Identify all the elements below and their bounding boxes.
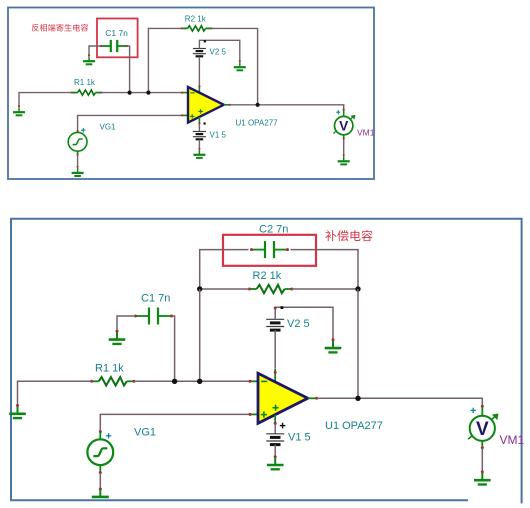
battery V1 (bottom) <box>266 434 284 445</box>
red highlight box around C1 <box>97 19 138 58</box>
VG1 plus marker <box>81 128 86 133</box>
wire op-amp to V1 <box>198 117 200 131</box>
wire feedback right vertical to output <box>357 289 359 398</box>
label: compensation capacitor note (补偿电容) <box>325 230 372 241</box>
wire VM1 to ground <box>343 135 345 156</box>
svg-text:V2 5: V2 5 <box>287 318 310 330</box>
label R1 1k (bottom) <box>95 363 124 375</box>
svg-text:VG1: VG1 <box>134 427 156 439</box>
battery V2 (bottom) <box>266 319 284 330</box>
VG1 plus marker (bottom) <box>106 433 111 438</box>
V1 polarity marker (top) <box>204 122 206 124</box>
label C1 7n (bottom) <box>141 293 170 305</box>
red highlight box around C2 <box>223 235 316 266</box>
wire R2 right leg (bottom) <box>292 288 358 290</box>
battery V1 (top) <box>193 132 206 140</box>
voltmeter VM1 (bottom) <box>468 414 498 441</box>
ground right of V2 (bottom) <box>325 338 342 352</box>
wire op-amp output to VM1 (bottom) <box>308 397 484 416</box>
wire R2 right leg to output <box>212 28 258 104</box>
svg-text:VM1: VM1 <box>357 128 375 138</box>
VM1 plus marker (top) <box>336 110 340 114</box>
ground under V1 (bottom) <box>267 455 284 469</box>
wire op-amp to V1 (bottom) <box>274 415 277 434</box>
wire C1 left to ground (bottom) <box>117 316 136 331</box>
wire feedback left vertical <box>199 289 201 381</box>
resistor R2 (top) <box>181 26 213 31</box>
ground under C1 left (bottom) <box>109 330 126 344</box>
svg-text:V: V <box>339 118 349 133</box>
label R2 1k (bottom) <box>253 270 282 282</box>
label VG1 <box>100 122 117 131</box>
wire V2 to op-amp V+ pin <box>198 57 200 93</box>
op-amp U1 (bottom) <box>258 373 308 423</box>
svg-text:C2 7n: C2 7n <box>259 224 288 236</box>
ground under VM1 (top) <box>338 154 350 164</box>
svg-text:U1 OPA277: U1 OPA277 <box>236 118 279 127</box>
svg-text:V: V <box>476 419 489 440</box>
resistor R1 (top) <box>71 90 103 95</box>
ground at input (top) <box>13 105 25 115</box>
V1 polarity marker (bottom) <box>280 423 286 429</box>
voltage source VG1 (top) <box>68 132 87 151</box>
wire C1 left to ground corner <box>89 46 101 55</box>
label V1 5 <box>210 130 227 139</box>
wire VM1 to ground (bottom) <box>481 441 484 472</box>
wire VG1 to non-inverting input <box>77 114 189 132</box>
junction node: C1/feedback on inverting line <box>128 91 151 95</box>
svg-text:C1 7n: C1 7n <box>105 28 128 38</box>
voltmeter VM1 (top) <box>334 115 356 135</box>
capacitor C1 (bottom) <box>134 308 173 325</box>
resistor R2 (bottom) <box>248 285 293 293</box>
ground right of V2 (top) <box>234 60 246 70</box>
label VM1 (bottom) <box>500 433 525 447</box>
op-amp U1 (top) <box>188 87 224 123</box>
wire C2 left to feedback node <box>200 250 249 289</box>
svg-text:R2 1k: R2 1k <box>185 14 207 23</box>
label U1 OPA277 (top) <box>236 118 279 127</box>
wire V1 to ground (bottom) <box>274 445 276 457</box>
wire C1 right down to inverting node (bottom) <box>172 316 175 381</box>
label R1 1k <box>74 78 96 87</box>
wire V1 to ground <box>198 140 200 149</box>
label VG1 (bottom) <box>134 427 156 439</box>
junction nodes on R2 line <box>197 286 361 291</box>
ground at input (bottom) <box>9 404 26 418</box>
wire V2 to op-amp V+ pin (bottom) <box>274 330 277 382</box>
label C1 7n <box>105 28 128 38</box>
svg-text:R1 1k: R1 1k <box>74 78 96 87</box>
wire VG1 to non-inverting input (bottom) <box>99 413 258 440</box>
capacitor C2 <box>250 241 289 258</box>
wire input ground to R1 (bottom) <box>18 381 92 405</box>
junction nodes on inverting line <box>172 379 202 384</box>
top schematic frame <box>8 8 374 180</box>
label V2 5 (bottom) <box>287 318 310 330</box>
wire V2 top to ground (bottom) <box>274 307 333 340</box>
svg-text:VM1: VM1 <box>500 433 525 447</box>
label: parasitic capacitance note (反相端寄生电容) <box>32 24 89 32</box>
junction node: feedback to output (bottom) <box>355 396 360 401</box>
ground under V1 (top) <box>193 148 205 158</box>
svg-text:V1 5: V1 5 <box>288 432 311 444</box>
wire VG1 to ground <box>77 151 79 167</box>
wire op-amp output to VM1 <box>224 104 345 117</box>
svg-text:U1 OPA277: U1 OPA277 <box>325 420 383 432</box>
VM1 plus marker (bottom) <box>471 408 476 413</box>
label V2 5 <box>210 47 227 56</box>
wire R2 left leg (bottom) <box>200 288 250 290</box>
svg-text:R2 1k: R2 1k <box>253 270 282 282</box>
junction node: feedback to output <box>256 103 260 107</box>
wire C1 right down to inverting node <box>127 46 130 93</box>
V2 polarity marker <box>204 40 206 42</box>
wire R2 left leg <box>148 28 181 92</box>
wire C2 right to output node <box>291 250 359 289</box>
wire R1 to inverting input (bottom) <box>134 380 258 383</box>
capacitor C1 <box>100 40 128 52</box>
resistor R1 (bottom) <box>90 377 135 385</box>
wire R1 to inverting input <box>102 92 189 94</box>
ground under VM1 (bottom) <box>474 470 491 484</box>
battery V2 (top) <box>193 49 206 57</box>
label R2 1k <box>185 14 207 23</box>
svg-text:R1 1k: R1 1k <box>95 363 124 375</box>
svg-text:V1 5: V1 5 <box>210 130 227 139</box>
label V1 5 (bottom) <box>288 432 311 444</box>
wire VG1 to ground (bottom) <box>99 465 102 489</box>
wire input ground to R1 <box>19 93 72 106</box>
label U1 OPA277 (bottom) <box>325 420 383 432</box>
ground under VG1 (top) <box>72 166 84 176</box>
ground under VG1 (bottom) <box>92 488 109 497</box>
svg-text:V2 5: V2 5 <box>210 47 227 56</box>
label C2 7n <box>259 224 288 236</box>
V2 polarity marker (bottom) <box>281 306 284 309</box>
voltage source VG1 (bottom) <box>87 439 113 465</box>
ground under C1 left <box>83 54 95 64</box>
svg-text:VG1: VG1 <box>100 122 117 131</box>
bottom schematic frame <box>11 219 522 504</box>
label VM1 (top) <box>357 128 375 138</box>
svg-text:C1 7n: C1 7n <box>141 293 170 305</box>
wire V2 top to ground <box>199 40 239 61</box>
